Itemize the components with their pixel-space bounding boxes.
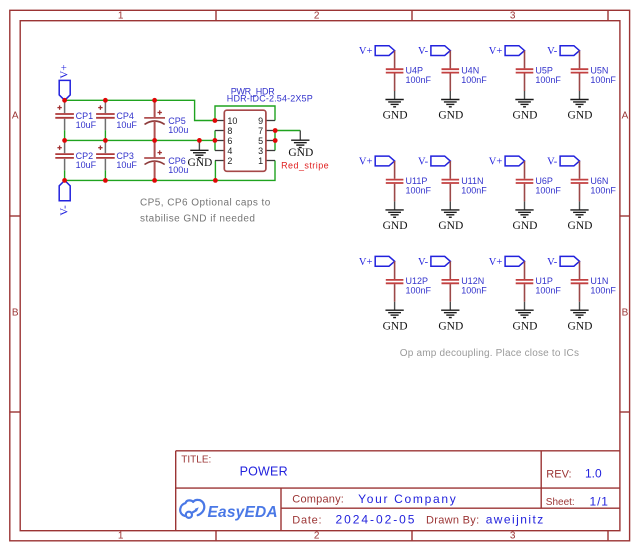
svg-text:B: B xyxy=(622,307,629,318)
svg-text:U1N: U1N xyxy=(590,276,608,286)
svg-text:Company:: Company: xyxy=(292,494,344,506)
svg-text:V+: V+ xyxy=(58,64,70,78)
svg-text:U12N: U12N xyxy=(461,276,484,286)
svg-text:GND: GND xyxy=(383,220,408,232)
svg-text:U4N: U4N xyxy=(461,66,479,76)
svg-text:Sheet:: Sheet: xyxy=(546,497,575,508)
svg-text:HDR-IDC-2.54-2X5P: HDR-IDC-2.54-2X5P xyxy=(227,94,313,104)
svg-text:100nF: 100nF xyxy=(406,185,432,195)
svg-text:4: 4 xyxy=(227,146,232,156)
svg-text:8: 8 xyxy=(227,126,232,136)
svg-text:V+: V+ xyxy=(359,257,373,268)
svg-text:GND: GND xyxy=(383,320,408,332)
svg-text:B: B xyxy=(12,307,19,318)
svg-text:U6P: U6P xyxy=(535,176,553,186)
svg-text:U12P: U12P xyxy=(406,276,429,286)
svg-text:GND: GND xyxy=(438,320,463,332)
svg-text:U11N: U11N xyxy=(461,176,483,186)
svg-text:100nF: 100nF xyxy=(590,286,616,296)
svg-text:GND: GND xyxy=(438,110,463,122)
svg-text:V+: V+ xyxy=(359,46,373,57)
svg-text:100u: 100u xyxy=(168,165,188,175)
svg-text:3: 3 xyxy=(510,531,516,542)
svg-text:100nF: 100nF xyxy=(406,75,432,85)
svg-text:GND: GND xyxy=(513,320,538,332)
svg-text:V-: V- xyxy=(547,46,558,57)
svg-text:GND: GND xyxy=(513,220,538,232)
svg-text:100nF: 100nF xyxy=(406,286,432,296)
svg-text:U5N: U5N xyxy=(590,66,608,76)
svg-text:aweijnitz: aweijnitz xyxy=(486,513,545,527)
svg-text:TITLE:: TITLE: xyxy=(181,455,211,466)
svg-text:GND: GND xyxy=(513,110,538,122)
svg-text:6: 6 xyxy=(227,136,232,146)
svg-text:A: A xyxy=(622,111,629,122)
svg-text:GND: GND xyxy=(187,157,212,169)
svg-text:V-: V- xyxy=(418,157,429,168)
svg-text:100nF: 100nF xyxy=(461,286,487,296)
svg-text:Red_stripe: Red_stripe xyxy=(281,161,329,171)
svg-text:3: 3 xyxy=(258,146,263,156)
svg-text:9: 9 xyxy=(258,116,263,126)
svg-text:GND: GND xyxy=(568,220,593,232)
svg-text:U11P: U11P xyxy=(406,176,428,186)
svg-text:V+: V+ xyxy=(359,157,373,168)
svg-text:1: 1 xyxy=(258,156,263,166)
svg-text:EasyEDA: EasyEDA xyxy=(208,504,278,521)
svg-text:V+: V+ xyxy=(489,257,503,268)
svg-text:100nF: 100nF xyxy=(535,286,561,296)
svg-text:10uF: 10uF xyxy=(76,120,97,130)
svg-text:GND: GND xyxy=(383,110,408,122)
svg-text:GND: GND xyxy=(438,220,463,232)
svg-text:100nF: 100nF xyxy=(535,75,561,85)
svg-text:U1P: U1P xyxy=(535,276,553,286)
svg-text:stabilise GND if needed: stabilise GND if needed xyxy=(140,214,255,225)
svg-text:1.0: 1.0 xyxy=(585,467,602,481)
svg-text:7: 7 xyxy=(258,126,263,136)
svg-text:V-: V- xyxy=(418,46,429,57)
svg-text:100nF: 100nF xyxy=(590,75,616,85)
svg-text:U5P: U5P xyxy=(535,66,553,76)
svg-text:V-: V- xyxy=(58,205,70,216)
svg-text:V-: V- xyxy=(418,257,429,268)
svg-text:Op amp decoupling. Place close: Op amp decoupling. Place close to ICs xyxy=(400,348,579,359)
svg-text:POWER: POWER xyxy=(240,465,288,479)
svg-text:A: A xyxy=(12,111,19,122)
svg-text:100nF: 100nF xyxy=(461,185,487,195)
svg-text:GND: GND xyxy=(568,110,593,122)
svg-text:10: 10 xyxy=(227,116,237,126)
svg-text:2: 2 xyxy=(227,156,232,166)
svg-text:1: 1 xyxy=(118,531,124,542)
svg-text:V+: V+ xyxy=(489,157,503,168)
svg-text:100nF: 100nF xyxy=(461,75,487,85)
svg-text:U6N: U6N xyxy=(590,176,608,186)
svg-text:5: 5 xyxy=(258,136,263,146)
svg-text:1/1: 1/1 xyxy=(590,495,609,509)
svg-text:REV:: REV: xyxy=(546,469,571,481)
svg-text:10uF: 10uF xyxy=(116,160,137,170)
svg-text:100nF: 100nF xyxy=(590,185,616,195)
svg-text:V-: V- xyxy=(547,157,558,168)
svg-text:GND: GND xyxy=(288,147,313,159)
svg-text:2: 2 xyxy=(314,531,320,542)
svg-text:V-: V- xyxy=(547,257,558,268)
svg-text:GND: GND xyxy=(568,320,593,332)
svg-text:10uF: 10uF xyxy=(116,120,137,130)
svg-text:2024-02-05: 2024-02-05 xyxy=(336,513,417,527)
svg-text:100u: 100u xyxy=(168,125,188,135)
svg-text:V+: V+ xyxy=(489,46,503,57)
svg-text:Drawn By:: Drawn By: xyxy=(426,514,479,526)
svg-text:100nF: 100nF xyxy=(535,185,561,195)
svg-text:2: 2 xyxy=(314,10,320,21)
svg-text:Your Company: Your Company xyxy=(358,492,457,506)
svg-text:Date:: Date: xyxy=(292,514,322,526)
svg-text:U4P: U4P xyxy=(406,66,424,76)
svg-text:1: 1 xyxy=(118,10,124,21)
svg-text:10uF: 10uF xyxy=(76,160,97,170)
svg-text:CP5, CP6 Optional caps to: CP5, CP6 Optional caps to xyxy=(140,197,271,208)
svg-text:3: 3 xyxy=(510,10,516,21)
